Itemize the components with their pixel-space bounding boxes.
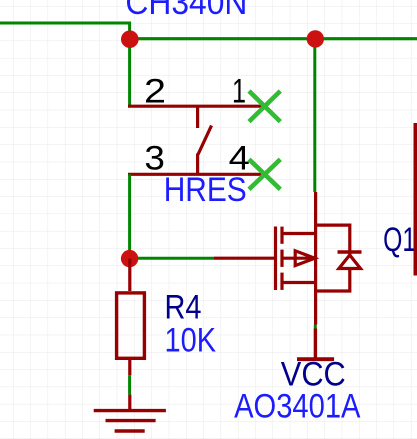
transistor Q1 arrow (295, 251, 315, 266)
wire (128, 39, 131, 106)
power VCC lead (314, 329, 317, 358)
transistor Q1 gate bar (274, 227, 277, 291)
transistor Q1 diode cathode bar (338, 250, 362, 253)
switch SW pin 3 lead (128, 173, 265, 176)
transistor Q1 channel segment top (280, 227, 283, 244)
svg-text:1: 1 (232, 73, 246, 111)
switch SW pin 2 lead (128, 105, 265, 108)
transistor Q1 drain lead (314, 291, 317, 325)
switch SW contact stub bottom (196, 154, 199, 175)
resistor R4 pin 1 lead (128, 259, 131, 292)
svg-text:CH340N: CH340N (125, 0, 247, 22)
transistor Q1 source/drain vertical (314, 192, 317, 291)
component edge at right (414, 123, 417, 276)
resistor R4 body (117, 293, 145, 358)
wire (128, 174, 131, 258)
transistor Q1 gate lead (214, 257, 274, 260)
transistor Q1 diode triangle (339, 255, 361, 269)
wire (128, 375, 131, 394)
wire (130, 37, 417, 40)
wire (313, 39, 316, 192)
junction (121, 250, 138, 267)
svg-text:2: 2 (144, 73, 166, 111)
wire (0, 23, 130, 39)
ground bar 1 (94, 409, 166, 412)
svg-text:3: 3 (144, 139, 165, 177)
svg-text:AO3401A: AO3401A (234, 387, 361, 425)
power VCC bar (297, 357, 334, 361)
transistor Q1 channel segment middle (280, 250, 283, 267)
transistor Q1 channel segment bottom (280, 273, 283, 290)
ground lead (128, 395, 131, 410)
junction (307, 30, 324, 47)
transistor Q1 source stub (282, 232, 316, 235)
no-connect flag pin 1 (249, 91, 280, 122)
switch SW contact stub top (196, 106, 199, 128)
transistor Q1 body stub (282, 257, 316, 260)
svg-text:10K: 10K (165, 322, 217, 360)
svg-text:Q1: Q1 (383, 221, 416, 259)
ground bar 2 (106, 419, 156, 422)
ground bar 3 (115, 429, 145, 432)
transistor Q1 diode branch bottom (316, 269, 350, 292)
transistor Q1 drain stub (282, 281, 316, 284)
transistor Q1 diode branch top (316, 225, 350, 255)
resistor R4 pin 2 lead (128, 360, 131, 375)
wire (130, 257, 214, 260)
wire (314, 325, 317, 329)
svg-text:HRES: HRES (164, 171, 247, 209)
no-connect flag pin 4 (249, 159, 280, 189)
switch SW lever (198, 126, 212, 155)
junction (121, 30, 139, 48)
